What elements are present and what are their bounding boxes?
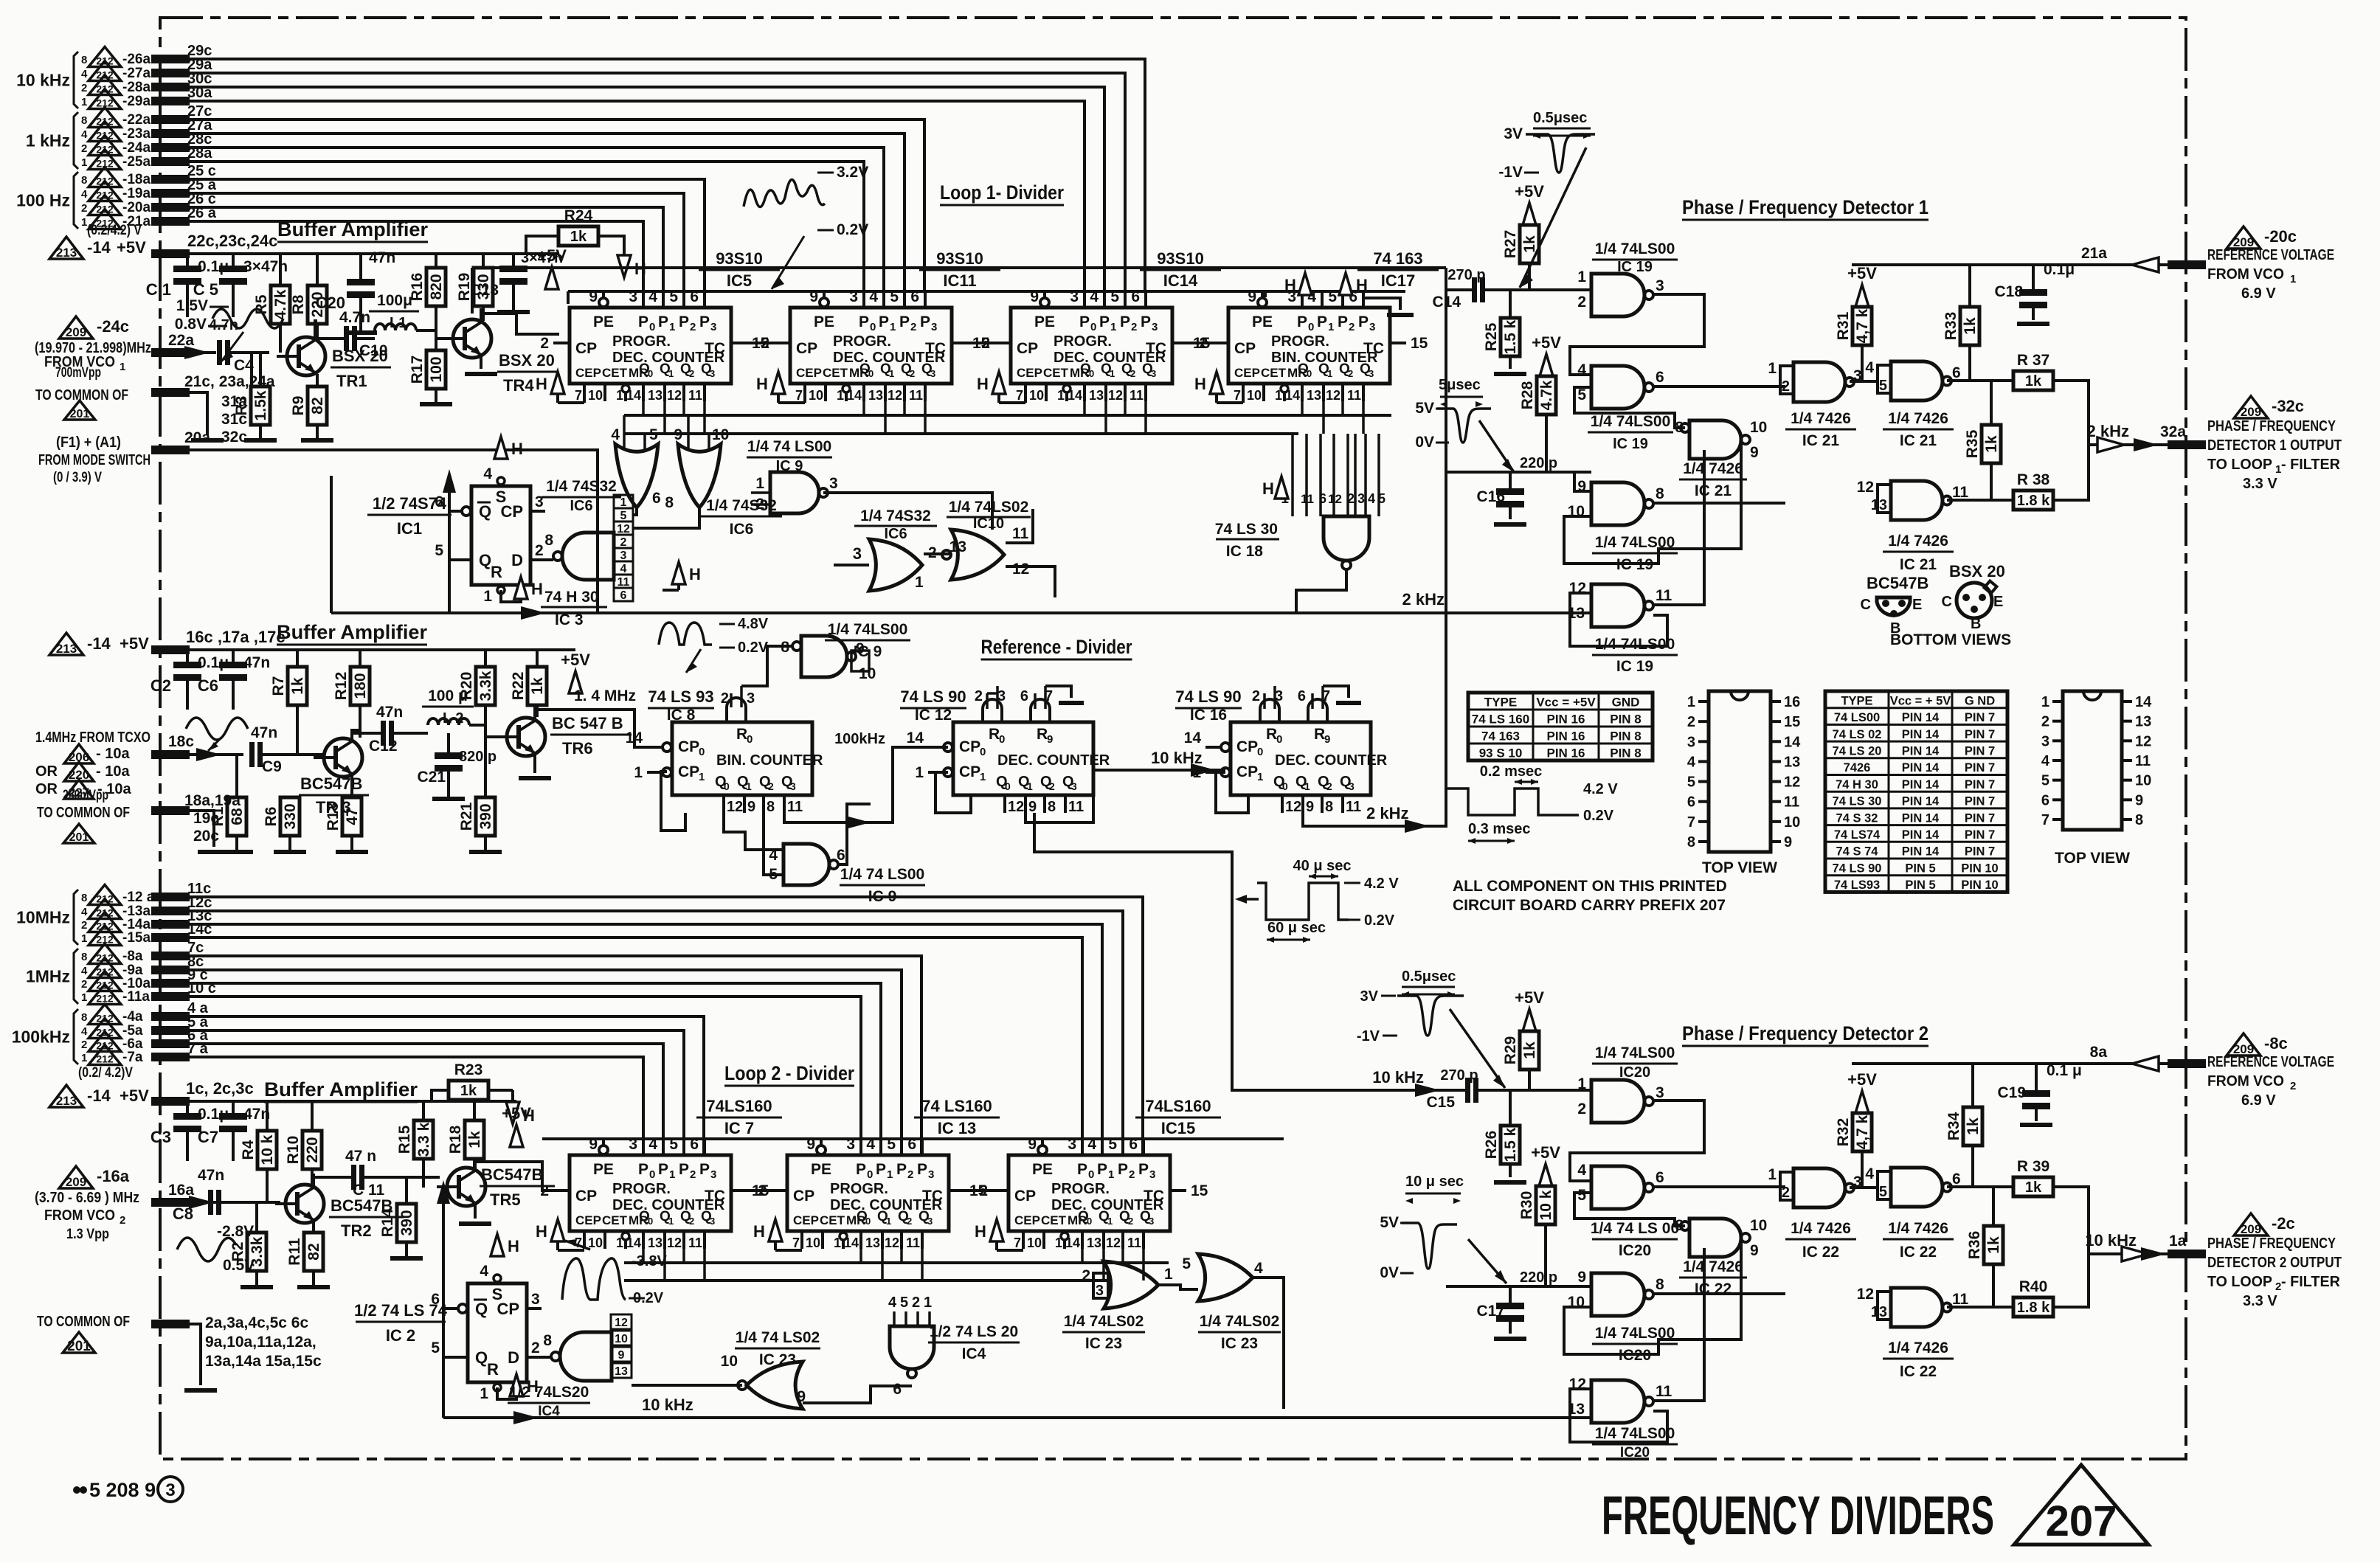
svg-text:0: 0 [1005,780,1011,792]
svg-text:1: 1 [924,1295,932,1311]
capacitor C15 [1415,1084,1440,1097]
svg-text:2: 2 [1349,321,1355,333]
svg-text:13: 13 [1871,1304,1887,1320]
IC12 R0 R9 gates [983,699,1002,722]
svg-text:R17: R17 [409,356,426,384]
svg-text:2: 2 [535,542,544,559]
svg-text:1: 1 [889,368,894,379]
svg-text:0: 0 [1282,780,1288,792]
resistor R4 [266,1101,269,1131]
svg-text:47n: 47n [198,1167,224,1184]
resistor R17 [435,318,437,350]
svg-text:0: 0 [649,1168,655,1181]
svg-text:1: 1 [1577,268,1586,285]
svg-text:PIN 14: PIN 14 [1902,778,1940,791]
svg-text:1.5k: 1.5k [252,390,269,420]
svg-text:3: 3 [927,1216,933,1227]
svg-text:1: 1 [886,1216,891,1227]
svg-text:C 1: C 1 [146,280,171,299]
svg-text:D: D [508,1348,519,1367]
svg-text:6: 6 [431,1291,440,1308]
svg-text:68: 68 [229,808,246,825]
svg-text:13: 13 [949,538,966,555]
svg-text:2: 2 [1577,1101,1586,1117]
svg-text:74 163: 74 163 [1373,249,1422,268]
svg-text:2: 2 [907,1168,913,1181]
svg-text:CP: CP [1017,340,1038,357]
svg-text:1: 1 [1768,360,1777,377]
svg-text:180: 180 [352,673,369,699]
svg-text:212: 212 [96,1053,114,1065]
svg-text:10: 10 [1750,419,1767,436]
svg-text:0: 0 [648,1216,653,1227]
svg-text:0.1μ: 0.1μ [2044,261,2075,278]
svg-text:8: 8 [543,1332,552,1349]
svg-text:-8c: -8c [2264,1034,2288,1053]
svg-text:P: P [638,1161,648,1178]
svg-text:0.3 msec: 0.3 msec [1468,821,1531,837]
svg-text:5: 5 [1687,774,1695,791]
svg-text:PIN 10: PIN 10 [1961,878,1998,892]
resistor R39 [2013,1177,2053,1196]
svg-text:2: 2 [540,335,549,352]
svg-text:1: 1 [755,475,764,492]
svg-text:820 p: 820 p [459,749,497,765]
svg-text:9: 9 [1047,733,1053,746]
svg-text:14: 14 [1068,388,1082,403]
svg-text:IC 21: IC 21 [1900,556,1937,573]
svg-text:10: 10 [1027,1236,1042,1250]
H arrow IC2 S [491,1234,504,1256]
svg-text:1.8 k: 1.8 k [2017,493,2050,509]
svg-text:R28: R28 [1519,381,1536,409]
wire TR5 out to IC7 [475,1162,570,1191]
svg-text:201: 201 [67,1339,91,1354]
svg-text:12: 12 [667,388,682,403]
svg-text:8a: 8a [2090,1044,2108,1061]
svg-text:3: 3 [931,321,937,333]
svg-text:1/4 74LS00: 1/4 74LS00 [1591,413,1671,430]
svg-text:6: 6 [620,589,627,602]
svg-text:H: H [536,1222,547,1241]
svg-text:P: P [679,313,689,330]
svg-text:5 208 9: 5 208 9 [89,1479,156,1501]
svg-text:CP: CP [575,340,597,357]
resistor R40 [2013,1297,2053,1317]
resistor R15 [422,1101,425,1120]
svg-text:11: 11 [2135,753,2151,769]
svg-text:(0.2/ 4.2)V: (0.2/ 4.2)V [78,1065,133,1081]
svg-text:-14: -14 [87,1087,111,1105]
svg-text:P: P [899,313,910,330]
resistor R19 [482,254,485,268]
svg-text:1/4 7426: 1/4 7426 [1888,410,1948,427]
svg-text:74LS160: 74LS160 [1145,1097,1211,1115]
svg-text:209: 209 [2241,405,2261,419]
resistor R20 [484,650,487,667]
svg-text:4.7k: 4.7k [1538,380,1555,410]
svg-text:PIN 7: PIN 7 [1965,761,1995,774]
svg-text:13: 13 [865,1236,880,1250]
svg-text:3: 3 [1096,1283,1104,1299]
svg-text:PIN 14: PIN 14 [1902,761,1940,774]
waveform sine buffer2 [186,718,248,740]
svg-text:5: 5 [620,510,627,522]
svg-text:3: 3 [1349,780,1355,792]
svg-text:1k: 1k [2025,1179,2042,1196]
svg-text:R: R [491,563,502,581]
+5V arrow buffer3 [510,1125,523,1147]
svg-text:213: 213 [56,246,77,260]
svg-text:BC547B: BC547B [1867,574,1928,592]
svg-text:11: 11 [1784,794,1799,811]
svg-text:+5V: +5V [1515,988,1544,1007]
svg-text:R24: R24 [564,207,593,224]
svg-text:8: 8 [1048,799,1056,815]
svg-text:TC: TC [925,340,946,357]
svg-text:1k: 1k [1521,235,1538,253]
svg-text:213: 213 [56,642,77,656]
wire 8a reference det2 [1852,1062,2168,1065]
det2 internal wires [1570,1101,1704,1181]
connector 209-32c output [2234,396,2268,418]
svg-text:13: 13 [868,388,883,403]
+5V arrow near C13 [545,267,558,289]
svg-text:21a: 21a [2081,245,2107,262]
wires IC8 outputs [724,813,783,850]
svg-text:R 37: R 37 [2017,352,2049,369]
svg-text:1/4 74 LS00: 1/4 74 LS00 [840,866,924,883]
svg-text:5V: 5V [1415,400,1434,417]
svg-text:1: 1 [668,1216,674,1227]
capacitor C1 [186,254,189,266]
transistor TR1 [287,337,325,375]
svg-text:1: 1 [81,96,87,108]
svg-text:TR1: TR1 [336,372,367,390]
svg-text:15: 15 [1784,714,1800,730]
svg-text:201: 201 [70,408,90,420]
svg-text:R8: R8 [290,294,307,314]
svg-text:FREQUENCY DIVIDERS: FREQUENCY DIVIDERS [1602,1485,1994,1546]
waveform 3.2V/0.2V [744,180,825,207]
svg-text:12: 12 [1326,388,1341,403]
svg-text:10: 10 [1750,1217,1767,1234]
svg-text:201: 201 [69,831,89,844]
resistor R32 [1855,1091,1869,1113]
svg-text:74 LS 02: 74 LS 02 [1833,728,1882,741]
svg-text:93 S 10: 93 S 10 [1479,746,1523,760]
svg-text:2: 2 [912,1295,920,1311]
svg-text:0V: 0V [1415,434,1434,451]
svg-text:-27a: -27a [122,66,151,81]
PE bus line loop2 [542,1137,1284,1140]
svg-text:0: 0 [1087,1216,1092,1227]
svg-text:2 kHz: 2 kHz [2087,422,2129,440]
resistor R36 [1992,1187,1995,1226]
svg-text:5: 5 [1182,1255,1191,1272]
svg-text:IC 19: IC 19 [1613,436,1648,452]
svg-text:7: 7 [575,388,582,403]
wire NOR IC23a [632,1384,742,1387]
svg-text:C7: C7 [198,1128,218,1146]
svg-text:5: 5 [2041,773,2049,789]
svg-text:CP: CP [500,502,523,521]
svg-text:PIN 16: PIN 16 [1547,713,1585,727]
svg-text:47n: 47n [251,724,277,741]
svg-text:R18: R18 [447,1125,464,1154]
svg-text:10: 10 [712,426,729,443]
svg-text:C18: C18 [1994,283,2023,300]
svg-text:-2c: -2c [2272,1214,2295,1233]
svg-text:TR2: TR2 [341,1221,372,1240]
svg-text:4,7 k: 4,7 k [1854,308,1871,343]
svg-text:TO COMMON OF: TO COMMON OF [35,387,128,403]
svg-text:100: 100 [428,356,445,382]
transistor TR6 [507,718,545,756]
svg-text:P: P [917,1161,927,1178]
svg-text:PE: PE [814,313,834,330]
svg-text:0: 0 [648,368,653,379]
svg-text:4: 4 [1865,1165,1874,1182]
H arrow at CEP IC 13 [769,1219,782,1241]
svg-text:BOTTOM VIEWS: BOTTOM VIEWS [1890,631,2011,648]
svg-text:0: 0 [999,733,1005,746]
svg-text:1: 1 [887,1168,893,1181]
H arrow IC1 S [494,437,508,459]
svg-text:8: 8 [1325,799,1333,815]
arrow annotation 10kHz line [1238,898,1259,901]
resistor R22 [536,650,539,667]
svg-text:3: 3 [1656,277,1664,294]
wire IC1 Q5 to AND [449,558,471,561]
svg-text:7: 7 [795,388,803,403]
capacitor C6 [232,650,235,662]
svg-text:DETECTOR 2 OUTPUT: DETECTOR 2 OUTPUT [2207,1255,2342,1271]
svg-text:TC: TC [1363,340,1384,357]
svg-text:1: 1 [1057,388,1065,403]
svg-text:ALL COMPONENT ON THIS PRIN: ALL COMPONENT ON THIS PRINTED [1453,878,1727,895]
svg-text:18a,19a: 18a,19a [184,792,241,809]
svg-text:C12: C12 [369,738,398,755]
wire TR4 collector to counters [481,313,559,334]
wire 7426 chain [1850,380,1878,383]
svg-text:C13: C13 [470,282,499,299]
svg-text:-15a: -15a [122,930,151,946]
capacitor C8 [208,1190,213,1215]
svg-text:1: 1 [1328,321,1334,333]
capacitor C19 [2035,1064,2038,1081]
svg-text:6: 6 [2041,792,2049,808]
svg-text:CEP: CEP [575,366,601,380]
svg-text:PIN 7: PIN 7 [1965,778,1995,791]
svg-text:-20a: -20a [122,200,151,215]
svg-text:PIN 16: PIN 16 [1547,746,1585,760]
svg-text:1: 1 [1027,780,1033,792]
svg-text:5: 5 [431,1340,440,1356]
svg-text:R22: R22 [510,672,527,701]
svg-text:P: P [1358,313,1369,330]
svg-text:C9: C9 [262,758,282,775]
svg-text:11: 11 [1952,1291,1969,1308]
svg-text:4: 4 [888,1295,897,1311]
svg-text:2: 2 [1782,378,1790,395]
svg-text:1: 1 [81,991,87,1004]
svg-text:209: 209 [66,325,86,339]
svg-text:8: 8 [81,54,87,66]
svg-text:6: 6 [893,1381,902,1398]
svg-text:4: 4 [81,68,88,80]
svg-text:1: 1 [699,771,705,783]
svg-text:GND: GND [1612,696,1640,710]
svg-text:1.5 k: 1.5 k [1502,319,1519,354]
svg-text:14: 14 [1184,729,1202,746]
resistor R3 [251,387,270,425]
svg-text:PIN 14: PIN 14 [1902,828,1940,842]
svg-text:IC11: IC11 [943,271,976,290]
svg-text:1: 1 [669,1168,675,1181]
nand 7426 IC21 b [1891,361,1943,401]
svg-text:7: 7 [2041,812,2049,828]
svg-text:C10: C10 [359,342,388,359]
svg-text:CP: CP [575,1188,597,1205]
svg-text:CET: CET [820,1213,845,1227]
svg-text:14: 14 [847,388,862,403]
svg-text:13: 13 [648,388,663,403]
svg-text:CEP: CEP [1234,366,1260,380]
resistor R11 [304,1233,323,1271]
border frame [160,18,2186,1459]
svg-text:1: 1 [1577,1075,1586,1092]
svg-text:2: 2 [689,1216,694,1227]
svg-text:1k: 1k [289,677,306,695]
table 14-pin ICs [1825,691,2007,892]
svg-text:6.9 V: 6.9 V [2241,1092,2276,1109]
wires IC4b inputs from counters [882,1247,894,1311]
svg-text:- FILTER: - FILTER [2281,1274,2341,1290]
svg-text:TC: TC [1146,340,1166,357]
svg-text:2 kHz: 2 kHz [1402,590,1445,609]
svg-text:6: 6 [1319,491,1326,506]
svg-text:BSX 20: BSX 20 [499,351,555,370]
svg-text:PIN 14: PIN 14 [1902,744,1940,758]
svg-text:9: 9 [856,640,865,657]
svg-text:0V: 0V [1380,1264,1399,1281]
svg-text:R7: R7 [270,676,287,696]
svg-text:1k: 1k [1985,1236,2002,1254]
svg-text:3: 3 [1149,1168,1155,1181]
svg-text:5: 5 [1879,378,1887,394]
svg-text:Vcc = + 5V: Vcc = + 5V [1890,694,1951,707]
svg-text:1/4 7426: 1/4 7426 [1683,1258,1743,1275]
svg-text:1: 1 [1107,1216,1113,1227]
svg-text:7 a: 7 a [187,1041,209,1057]
svg-text:R9: R9 [290,396,307,416]
svg-text:-7a: -7a [122,1050,143,1065]
svg-text:21c, 23a,24a: 21c, 23a,24a [184,373,275,390]
wire 100kHz to IC12 [784,747,948,822]
svg-text:-16a: -16a [97,1167,130,1185]
waveform 4.8V pulses [659,623,712,645]
svg-text:0: 0 [870,321,876,333]
svg-text:CEP: CEP [793,1213,819,1227]
svg-text:4: 4 [480,1263,488,1280]
svg-text:3: 3 [1152,321,1158,333]
svg-text:9: 9 [1324,733,1330,746]
svg-text:CP: CP [678,738,699,755]
svg-text:2: 2 [81,142,87,155]
svg-text:15: 15 [1411,335,1428,352]
svg-text:1c, 2c,3c: 1c, 2c,3c [186,1079,254,1098]
svg-text:3.3k: 3.3k [477,670,494,701]
svg-text:8: 8 [544,532,553,549]
svg-text:74 S 32: 74 S 32 [1836,811,1878,825]
svg-text:P: P [658,1161,668,1178]
svg-text:12: 12 [1108,388,1123,403]
svg-text:PIN 7: PIN 7 [1965,711,1995,724]
capacitor C10 [315,337,344,340]
svg-text:4.7n: 4.7n [209,317,238,333]
svg-text:Buffer Amplifier: Buffer Amplifier [264,1078,418,1101]
svg-text:C19: C19 [1997,1084,2026,1101]
svg-text:+5V: +5V [1515,182,1544,201]
svg-text:0.8V: 0.8V [175,316,207,333]
svg-text:H: H [756,375,768,393]
svg-text:13: 13 [1784,754,1800,770]
svg-text:26 a: 26 a [187,205,217,221]
svg-text:5: 5 [1577,387,1586,403]
svg-text:PIN 10: PIN 10 [1961,862,1998,875]
svg-text:2: 2 [120,1214,125,1227]
svg-text:PIN 16: PIN 16 [1547,729,1585,744]
svg-text:C3: C3 [151,1128,171,1146]
svg-text:13: 13 [1307,388,1321,403]
transistor TR2 [286,1185,324,1223]
svg-text:10 c: 10 c [187,980,216,997]
svg-text:4.8V: 4.8V [738,616,769,632]
svg-text:1: 1 [1768,1166,1777,1183]
svg-text:10 k: 10 k [259,1134,276,1165]
svg-text:9: 9 [2135,792,2143,808]
svg-text:40 μ sec: 40 μ sec [1293,858,1352,874]
capacitor C15 det1 C14 [1446,288,1472,291]
triangle 207 [2014,1465,2148,1545]
svg-text:0: 0 [1090,321,1096,333]
nand 7426 IC22 c [1891,1288,1943,1327]
svg-text:1/4 7426: 1/4 7426 [1888,533,1948,550]
svg-text:10: 10 [615,1333,628,1345]
svg-text:C6: C6 [198,676,218,695]
svg-text:820: 820 [428,274,445,299]
svg-text:1/4 74LS02: 1/4 74LS02 [1064,1313,1144,1330]
svg-text:7: 7 [1016,388,1023,403]
capacitor C9 [249,742,255,767]
svg-text:12: 12 [617,523,630,536]
svg-text:PROGR.: PROGR. [1054,333,1112,350]
svg-text:74 163: 74 163 [1481,729,1520,744]
svg-text:2: 2 [1687,714,1695,730]
svg-text:IC 13: IC 13 [938,1119,977,1137]
svg-text:-24c: -24c [97,317,129,336]
capacitor C7 [232,1101,235,1113]
svg-text:P: P [1138,1161,1149,1178]
svg-text:PIN 7: PIN 7 [1965,828,1995,842]
svg-text:1.3 Vpp: 1.3 Vpp [66,1227,109,1242]
svg-text:1: 1 [620,496,627,509]
svg-text:3V: 3V [1360,988,1379,1005]
svg-text:3: 3 [853,544,862,563]
svg-text:20c: 20c [193,828,219,845]
svg-text:16c ,17a ,17c: 16c ,17a ,17c [186,628,286,646]
